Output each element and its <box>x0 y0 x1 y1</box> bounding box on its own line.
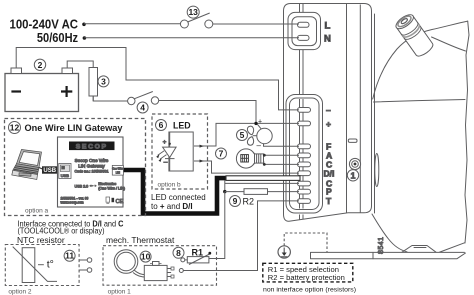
LED option box <box>152 114 299 189</box>
lamp E7 <box>236 149 264 168</box>
svg-text:12: 12 <box>10 123 20 133</box>
LED wire lower <box>194 161 299 173</box>
svg-text:LIN Gateway: LIN Gateway <box>78 164 105 169</box>
svg-text:1: 1 <box>351 170 356 180</box>
NTC resistor symbol <box>22 248 35 283</box>
wire fan motor to F pin <box>264 144 300 147</box>
svg-text:+: + <box>258 119 262 126</box>
device USB port <box>59 164 71 179</box>
pin P <box>298 189 311 194</box>
ground symbol <box>278 233 327 258</box>
switch S13 <box>180 13 212 28</box>
compressor left edge wall <box>374 14 376 213</box>
svg-text:USB 2.0: USB 2.0 <box>75 184 89 188</box>
node dot lamp A <box>263 154 266 157</box>
thermostat terminal 2 <box>179 269 183 273</box>
bulb filament <box>241 155 249 162</box>
pin N <box>298 35 310 40</box>
pin T <box>298 199 311 204</box>
fan M5 <box>247 124 299 146</box>
interface cable sleeve <box>226 176 300 181</box>
svg-text:option b: option b <box>158 182 182 189</box>
svg-text:R2: R2 <box>243 197 255 207</box>
svg-text:CE: CE <box>116 199 124 205</box>
wire lamp to A pin <box>265 154 299 156</box>
svg-text:USB: USB <box>61 173 70 178</box>
svg-text:11: 11 <box>65 251 74 261</box>
callout 10 <box>140 251 151 262</box>
svg-text:13: 13 <box>188 7 198 17</box>
svg-text:www.secop.com: www.secop.com <box>61 200 84 204</box>
thermostat terminals tabs <box>167 269 171 277</box>
gateway option box 12 <box>5 119 146 216</box>
bulb neck <box>253 153 255 165</box>
wire junction down to R1 <box>209 192 225 259</box>
junction dot plus rail <box>254 122 257 125</box>
svg-text:LED connected: LED connected <box>151 193 206 202</box>
compressor rear contour <box>432 37 466 51</box>
interface cable thick wire <box>124 170 227 214</box>
USB plug label <box>42 166 58 173</box>
LED wire upper <box>194 123 255 146</box>
unit channel lines through DC connector <box>300 99 304 209</box>
svg-text:option 2: option 2 <box>8 289 32 295</box>
svg-text:9: 9 <box>233 196 238 206</box>
svg-text:option a: option a <box>25 208 49 215</box>
compressor shoulder seam <box>374 100 466 103</box>
svg-text:non interface option (resistor: non interface option (resistors) <box>263 287 356 294</box>
unit internal channel lines <box>300 4 304 13</box>
wire battery plus to fuse <box>67 61 93 68</box>
callout 4 <box>137 102 148 113</box>
unit body <box>284 4 372 222</box>
battery B1 <box>5 68 79 112</box>
wire N <box>84 37 299 39</box>
wire lamp to C pin <box>265 163 299 165</box>
svg-text:8541: 8541 <box>378 236 385 254</box>
callout 3 <box>98 76 109 87</box>
pin D/I <box>298 171 311 176</box>
svg-text:6: 6 <box>159 120 164 130</box>
svg-text:SECOP: SECOP <box>76 143 108 150</box>
callout 6 <box>156 120 167 131</box>
bulb base <box>255 154 264 163</box>
svg-text:R2 = battery protection: R2 = battery protection <box>268 273 345 282</box>
DC connector <box>286 95 323 214</box>
resistor R1 <box>181 258 185 262</box>
svg-text:100-240V AC: 100-240V AC <box>10 18 79 32</box>
callout 13 <box>187 6 199 18</box>
svg-text:N: N <box>324 34 331 45</box>
svg-text:5: 5 <box>240 130 245 140</box>
electronic unit 101N0500 <box>284 4 372 222</box>
gateway dashed box <box>5 119 146 216</box>
callout 5 <box>237 130 248 141</box>
svg-text:7: 7 <box>219 149 224 159</box>
legend box <box>263 263 353 282</box>
callout 8 <box>173 247 184 258</box>
svg-text:4: 4 <box>140 103 145 113</box>
battery terminal plus <box>62 68 73 74</box>
compressor suction pipe <box>394 12 435 59</box>
svg-text:L: L <box>325 21 331 32</box>
ground dashed link <box>284 233 327 252</box>
LED dashed box <box>152 114 208 189</box>
pin F <box>298 144 311 149</box>
device one-wire port <box>112 165 123 175</box>
battery terminal minus <box>11 68 22 74</box>
WEEE icon <box>106 197 110 202</box>
switch S4 <box>128 92 159 105</box>
compressor base plate <box>311 243 466 259</box>
svg-text:+: + <box>326 119 331 129</box>
svg-text:Code no.: 105N9501: Code no.: 105N9501 <box>74 169 108 173</box>
compressor bottom-left curve <box>372 214 407 252</box>
pin A <box>298 153 311 158</box>
svg-text:One Wire: One Wire <box>112 167 124 171</box>
thermostat capillary coil <box>114 250 174 281</box>
compressor mounting foot <box>402 246 436 253</box>
node dot L <box>82 23 86 27</box>
compressor body <box>311 12 470 259</box>
svg-text:option 1: option 1 <box>108 289 132 295</box>
svg-text:mech. Thermostat: mech. Thermostat <box>106 235 175 245</box>
wire switch 13 to L pin <box>213 23 299 25</box>
battery minus sign <box>11 90 21 92</box>
LED D1 symbol <box>156 132 176 171</box>
unit side panel lines <box>346 4 348 214</box>
thermostat option box <box>103 246 217 286</box>
svg-text:+: + <box>163 140 167 146</box>
fan motor <box>257 128 272 143</box>
svg-text:(One Wire / LIN): (One Wire / LIN) <box>98 186 125 190</box>
compressor dome arc <box>373 21 468 99</box>
svg-text:to + and D/I: to + and D/I <box>151 202 193 211</box>
wire plus rail switch4 to plus pin <box>159 101 299 124</box>
svg-text:–: – <box>164 159 168 166</box>
svg-text:2: 2 <box>38 60 43 70</box>
callout 12 <box>9 122 21 134</box>
pin plus <box>298 121 311 126</box>
pin C <box>298 162 311 167</box>
fuse F1 <box>89 67 98 101</box>
fan motor stub <box>257 124 261 129</box>
AC connector <box>288 12 321 49</box>
svg-text:T: T <box>326 196 332 206</box>
svg-text:One Wire LIN Gateway: One Wire LIN Gateway <box>25 123 124 133</box>
compressor seam lens <box>375 154 379 187</box>
thermostat body <box>144 265 167 280</box>
mains supply labels <box>10 18 87 45</box>
compressor clip <box>366 37 371 58</box>
resistor R2 <box>244 189 268 195</box>
callout 9 <box>230 196 241 207</box>
callout 11 <box>64 250 75 261</box>
svg-text:–: – <box>326 105 331 115</box>
wire junction to R2 <box>225 191 244 193</box>
wire battery minus to DC minus pin <box>16 48 299 110</box>
LED module rect <box>169 132 193 171</box>
battery plus sign <box>61 86 72 97</box>
node dot N <box>83 36 87 40</box>
callout 2 <box>34 59 45 70</box>
svg-text:D/I: D/I <box>324 168 335 178</box>
battery icon <box>112 198 115 202</box>
callout 1 <box>347 170 358 181</box>
svg-text:3: 3 <box>101 76 106 86</box>
wire fuse to switch 4 <box>93 96 127 101</box>
svg-text:10: 10 <box>141 252 151 262</box>
svg-text:8: 8 <box>176 248 181 258</box>
pin minus <box>298 108 311 113</box>
gateway device 105N9501 <box>58 137 126 207</box>
svg-text:–: – <box>257 141 262 150</box>
NTC terminals <box>79 260 87 270</box>
laptop PC <box>12 150 44 180</box>
svg-text:Secop One Wire: Secop One Wire <box>75 158 109 163</box>
svg-text:R1: R1 <box>192 248 204 258</box>
svg-text:Electronics: Electronics <box>98 182 116 186</box>
mounting screw <box>349 158 360 169</box>
DC terminal labels <box>324 105 335 206</box>
fan propeller <box>247 126 253 135</box>
wire R2 to P pin <box>268 191 300 193</box>
callout 7 <box>216 148 227 159</box>
svg-text:NTC resistor: NTC resistor <box>17 235 65 245</box>
wire thermostat to T pin <box>184 201 300 271</box>
svg-text:– t°: – t° <box>38 259 54 271</box>
unit side tab <box>348 139 357 142</box>
svg-text:USB: USB <box>43 168 56 174</box>
wire L to switch 13 <box>84 23 180 25</box>
pin C2 <box>298 181 311 186</box>
svg-text:LIN: LIN <box>116 170 120 174</box>
svg-text:LED: LED <box>173 121 191 132</box>
SECOP logo <box>69 142 115 151</box>
pin L <box>298 22 310 27</box>
svg-text:50/60Hz: 50/60Hz <box>37 31 78 45</box>
bulb globe <box>236 149 255 168</box>
junction node D/I <box>224 180 226 191</box>
node dot lamp C <box>263 163 266 166</box>
compressor torn right edge <box>465 21 469 243</box>
NTC option box <box>5 245 79 286</box>
